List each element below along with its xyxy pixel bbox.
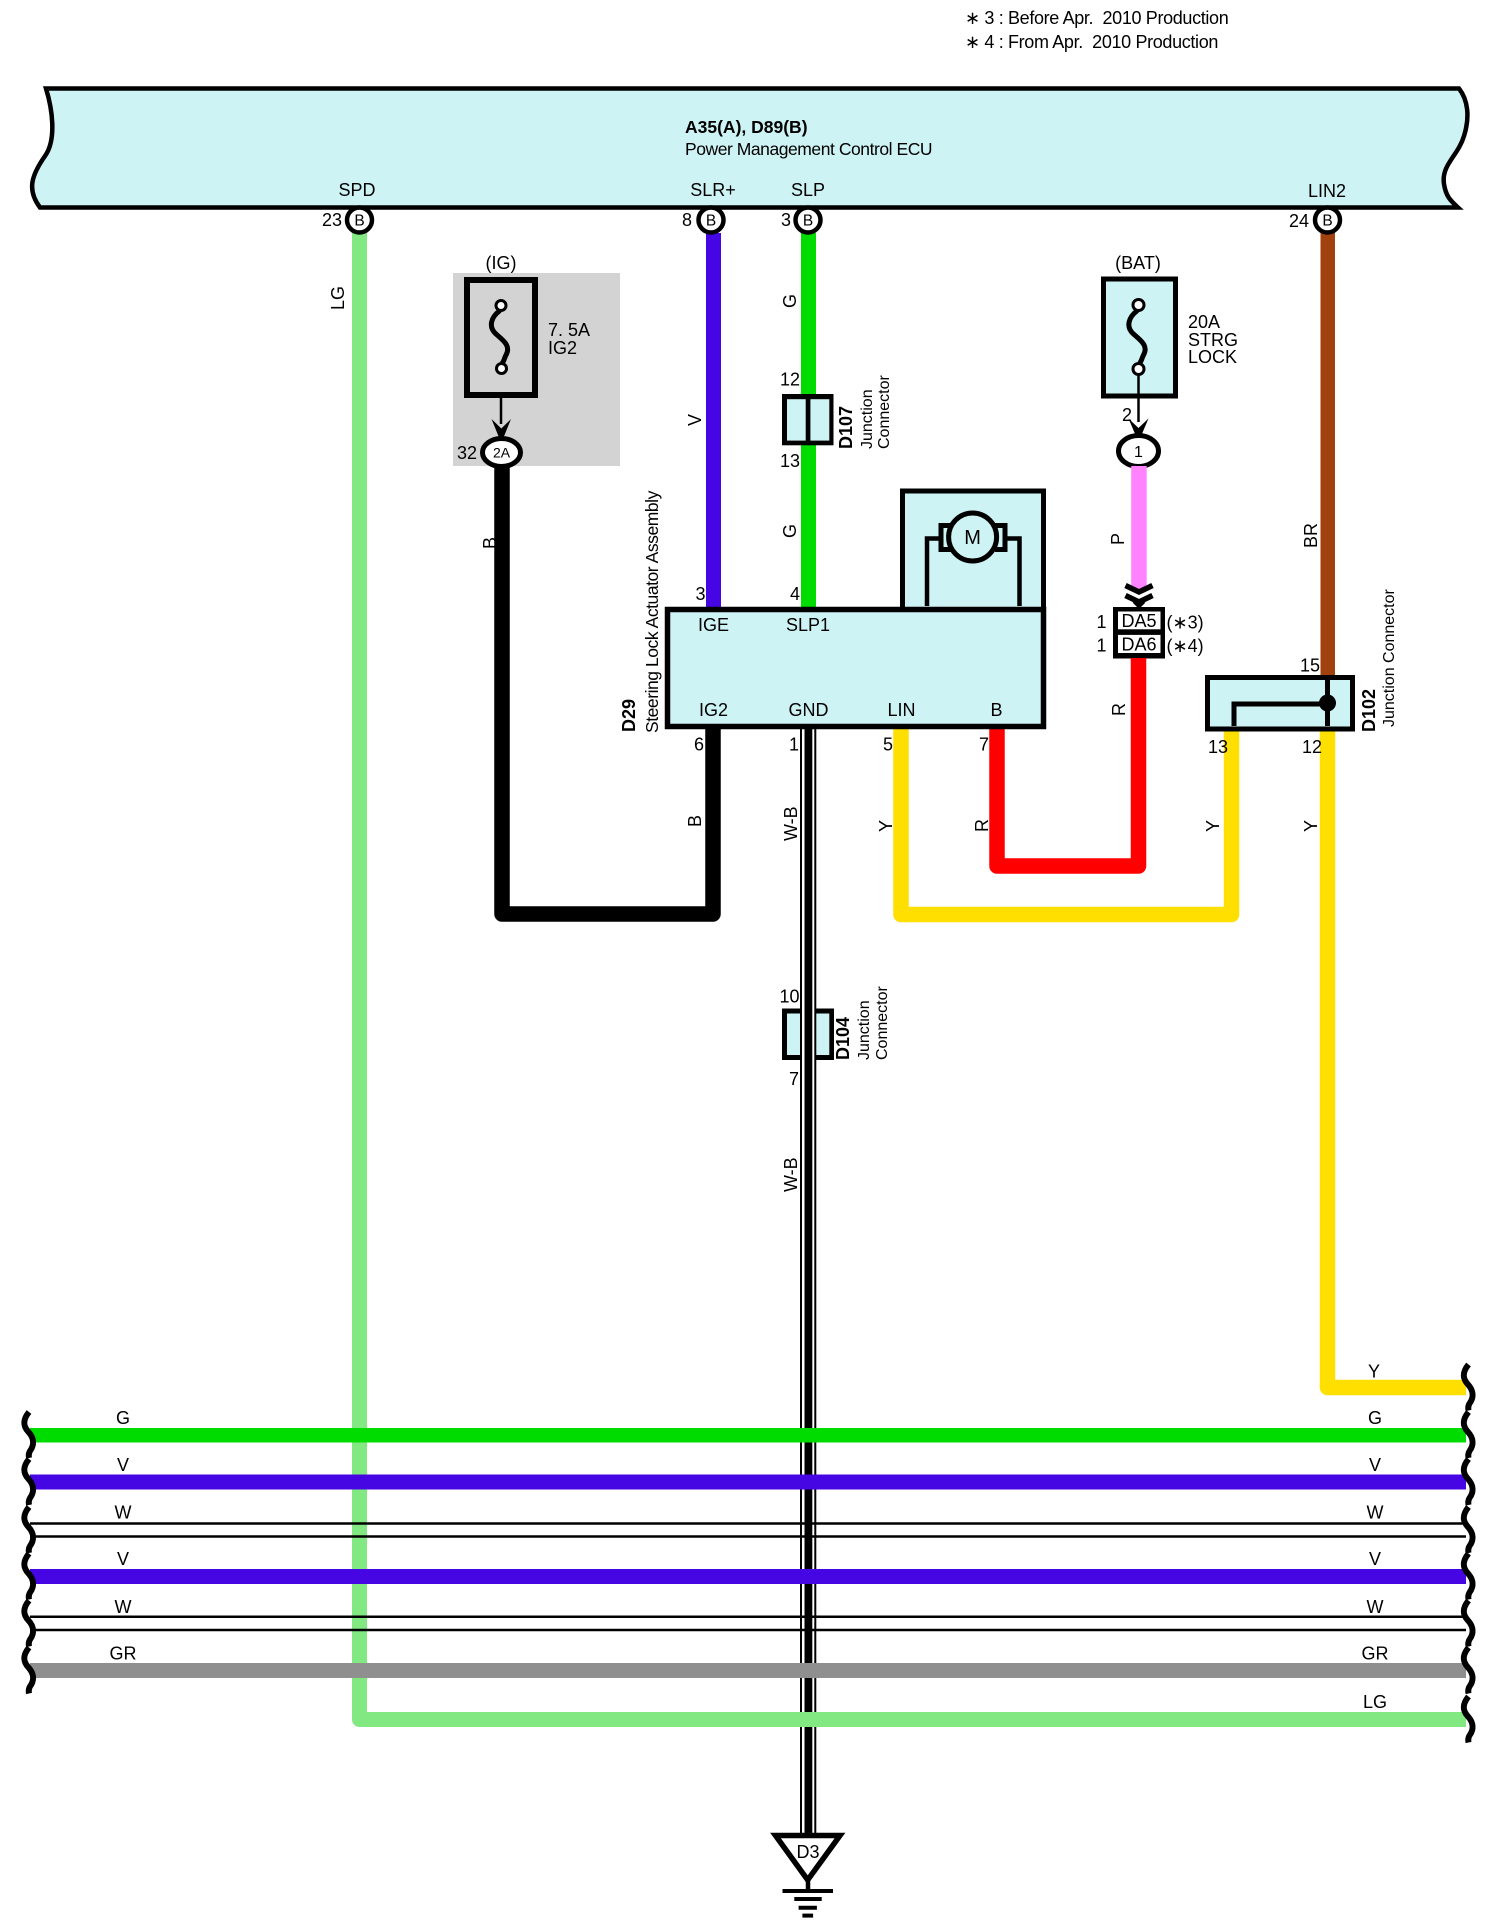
svg-text:1: 1: [1134, 444, 1143, 461]
ECU A35/D89 band with torn ends: [32, 89, 1467, 208]
svg-text:(IG): (IG): [486, 253, 517, 273]
svg-text:V: V: [117, 1549, 129, 1569]
svg-text:12: 12: [780, 370, 800, 390]
torn end left bus W: [24, 1507, 33, 1553]
torn end right bus V2: [1464, 1554, 1473, 1600]
svg-text:13: 13: [1208, 737, 1228, 757]
svg-text:V: V: [685, 414, 705, 426]
svg-text:LIN: LIN: [887, 700, 915, 720]
svg-text:Y: Y: [876, 820, 896, 832]
ground hash marks: [783, 1891, 834, 1916]
svg-text:1: 1: [789, 735, 799, 755]
IG fuse gray backdrop: [453, 273, 620, 466]
motor brushes: [941, 526, 1005, 550]
svg-text:SPD: SPD: [338, 180, 375, 200]
svg-text:7: 7: [789, 1069, 799, 1089]
svg-text:DA5: DA5: [1121, 611, 1156, 631]
fuse element: [1129, 300, 1145, 375]
svg-text:D104: D104: [833, 1017, 853, 1060]
arrow from fuse to connector 2A: [500, 395, 503, 424]
svg-text:Steering Lock Actuator Assembl: Steering Lock Actuator Assembly: [642, 490, 662, 733]
svg-text:B: B: [990, 700, 1002, 720]
svg-text:LOCK: LOCK: [1188, 347, 1237, 367]
svg-text:SLR+: SLR+: [690, 180, 736, 200]
svg-text:Y: Y: [1301, 820, 1321, 832]
torn end right bus W: [1464, 1507, 1473, 1553]
svg-text:3: 3: [695, 584, 705, 604]
svg-text:A35(A), D89(B): A35(A), D89(B): [685, 117, 808, 137]
wire P pink: [1131, 466, 1147, 590]
torn end right bus LG: [1464, 1697, 1473, 1743]
svg-text:Power Management Control ECU: Power Management Control ECU: [685, 139, 932, 159]
svg-text:Y: Y: [1368, 1362, 1380, 1382]
svg-text:5: 5: [883, 735, 893, 755]
svg-text:W-B: W-B: [781, 806, 801, 841]
wire Y from D102 pin 12 down to right edge: [1328, 727, 1467, 1388]
torn end left bus GR: [24, 1648, 33, 1694]
svg-text:(BAT): (BAT): [1115, 253, 1161, 273]
svg-text:2A: 2A: [493, 445, 511, 461]
svg-text:32: 32: [457, 443, 477, 463]
fuse 20A STRG LOCK body: [1104, 279, 1176, 396]
svg-text:6: 6: [694, 735, 704, 755]
wire B from 2A down right up to IG2 pin 6: [502, 466, 713, 914]
svg-text:V: V: [1369, 1549, 1381, 1569]
torn end right bus V: [1464, 1459, 1473, 1505]
svg-text:W-B: W-B: [781, 1157, 801, 1192]
connector oval 2A pin 32: [483, 439, 521, 467]
motor M circle: [949, 513, 997, 561]
svg-text:23: 23: [322, 210, 342, 230]
svg-text:B: B: [685, 815, 705, 827]
svg-text:24: 24: [1289, 211, 1309, 231]
torn end left bus W2: [24, 1601, 33, 1647]
svg-text:13: 13: [780, 451, 800, 471]
svg-text:GR: GR: [110, 1644, 137, 1664]
bus wire LG horizontal: [360, 1703, 1467, 1720]
motor box of steering lock actuator: [903, 491, 1044, 610]
svg-text:GR: GR: [1362, 1644, 1389, 1664]
junction connector D102: [1208, 678, 1353, 730]
pin 3 circle B: [781, 208, 821, 233]
svg-text:Connector: Connector: [874, 986, 891, 1060]
bus wire G: [30, 1428, 1466, 1443]
svg-text:G: G: [780, 524, 800, 538]
svg-text:12: 12: [1302, 737, 1322, 757]
wire W-B from GND pin 1 to ground: [802, 730, 815, 1836]
torn edge marks left: [24, 1412, 33, 1694]
torn end right bus GR: [1464, 1648, 1473, 1694]
junction connector D104: [782, 1009, 834, 1061]
bus wire W (outline): [30, 1524, 1466, 1537]
svg-text:W: W: [1367, 1503, 1384, 1523]
bus wire GR: [30, 1663, 1466, 1678]
wire R from DA6 down left up to pin 7: [997, 658, 1139, 866]
svg-text:G: G: [780, 294, 800, 308]
motor internal wires: [927, 539, 1020, 607]
svg-text:IGE: IGE: [698, 615, 729, 635]
D29 steering lock actuator assembly box: [668, 610, 1044, 727]
shield arrow chevrons above DA5: [1126, 586, 1153, 593]
svg-text:(∗4): (∗4): [1167, 636, 1204, 656]
svg-text:V: V: [1369, 1455, 1381, 1475]
pin 24 circle B: [1289, 208, 1340, 233]
svg-text:Junction: Junction: [859, 389, 876, 449]
svg-text:7: 7: [979, 735, 989, 755]
svg-text:G: G: [116, 1408, 130, 1428]
svg-text:V: V: [117, 1455, 129, 1475]
svg-text:8: 8: [682, 210, 692, 230]
svg-text:DA6: DA6: [1121, 635, 1156, 655]
ground symbol D3: [776, 1836, 841, 1881]
svg-text:B: B: [706, 213, 716, 230]
wire G from SLP pin 3: [801, 233, 816, 607]
svg-text:Connector: Connector: [876, 375, 893, 449]
svg-text:D107: D107: [836, 406, 856, 449]
svg-text:B: B: [803, 213, 813, 230]
svg-text:W: W: [115, 1597, 132, 1617]
connector DA5/DA6 block: [1113, 607, 1165, 659]
svg-text:P: P: [1108, 533, 1128, 545]
svg-text:R: R: [972, 819, 992, 832]
fuse 7.5A IG2 body: [467, 280, 535, 395]
svg-text:B: B: [1322, 213, 1332, 230]
svg-text:M: M: [964, 527, 981, 549]
torn end right bus Y: [1464, 1365, 1473, 1411]
pin 8 circle B: [682, 208, 724, 233]
junction connector D107: [782, 394, 834, 445]
svg-text:SLP1: SLP1: [786, 615, 830, 635]
svg-text:W: W: [1367, 1597, 1384, 1617]
bus wire W 2 (outline): [30, 1617, 1466, 1630]
svg-text:B: B: [354, 213, 364, 230]
bus wire V 2: [30, 1569, 1466, 1584]
torn end right bus G: [1464, 1412, 1473, 1458]
torn end left bus V: [24, 1459, 33, 1505]
svg-text:10: 10: [779, 987, 799, 1007]
torn edge marks right: [1464, 1365, 1473, 1743]
svg-text:LG: LG: [328, 286, 348, 310]
svg-text:R: R: [1109, 703, 1129, 716]
pin 23 circle B: [322, 208, 372, 233]
svg-text:4: 4: [790, 584, 800, 604]
svg-text:1: 1: [1096, 612, 1106, 632]
svg-text:∗ 4 : From Apr. 2010 Producti: ∗ 4 : From Apr. 2010 Production: [965, 32, 1218, 52]
svg-text:15: 15: [1300, 656, 1320, 676]
svg-text:3: 3: [781, 210, 791, 230]
svg-text:20A: 20A: [1188, 312, 1220, 332]
D102 junction dot: [1319, 695, 1336, 712]
connector oval 1: [1119, 436, 1159, 467]
wire Y from LIN pin 5 down right up to D102 pin 13: [901, 727, 1232, 915]
svg-text:D102: D102: [1359, 689, 1379, 732]
svg-text:∗ 3 : Before Apr. 2010 Produc: ∗ 3 : Before Apr. 2010 Production: [965, 8, 1228, 28]
svg-text:GND: GND: [789, 700, 829, 720]
torn end left bus V2: [24, 1554, 33, 1600]
torn end left bus G: [24, 1412, 33, 1458]
wire V from SLR+ pin 8: [706, 233, 721, 607]
svg-text:(∗3): (∗3): [1167, 613, 1204, 633]
svg-text:Junction: Junction: [856, 1000, 873, 1060]
wire LG vertical from SPD pin 23: [352, 233, 367, 1719]
bus wire V: [30, 1475, 1466, 1490]
svg-text:B: B: [480, 537, 500, 549]
svg-text:D29: D29: [619, 699, 639, 732]
svg-text:LIN2: LIN2: [1308, 181, 1346, 201]
fuse element: [491, 301, 507, 374]
svg-text:LG: LG: [1363, 1692, 1387, 1712]
torn end right bus W2: [1464, 1601, 1473, 1647]
svg-text:SLP: SLP: [791, 180, 825, 200]
svg-text:7. 5A: 7. 5A: [548, 320, 590, 340]
svg-text:G: G: [1368, 1408, 1382, 1428]
svg-text:Junction Connector: Junction Connector: [1381, 588, 1398, 727]
arrow from fuse to connector 1: [1137, 374, 1140, 422]
svg-text:Y: Y: [1203, 820, 1223, 832]
svg-text:IG2: IG2: [699, 700, 728, 720]
svg-text:D3: D3: [796, 1842, 819, 1862]
svg-text:IG2: IG2: [548, 338, 577, 358]
svg-text:BR: BR: [1301, 523, 1321, 548]
D102 internal busbar: [1234, 680, 1328, 726]
wire BR from LIN2 pin 24: [1321, 233, 1336, 680]
svg-text:W: W: [115, 1503, 132, 1523]
svg-text:1: 1: [1096, 636, 1106, 656]
